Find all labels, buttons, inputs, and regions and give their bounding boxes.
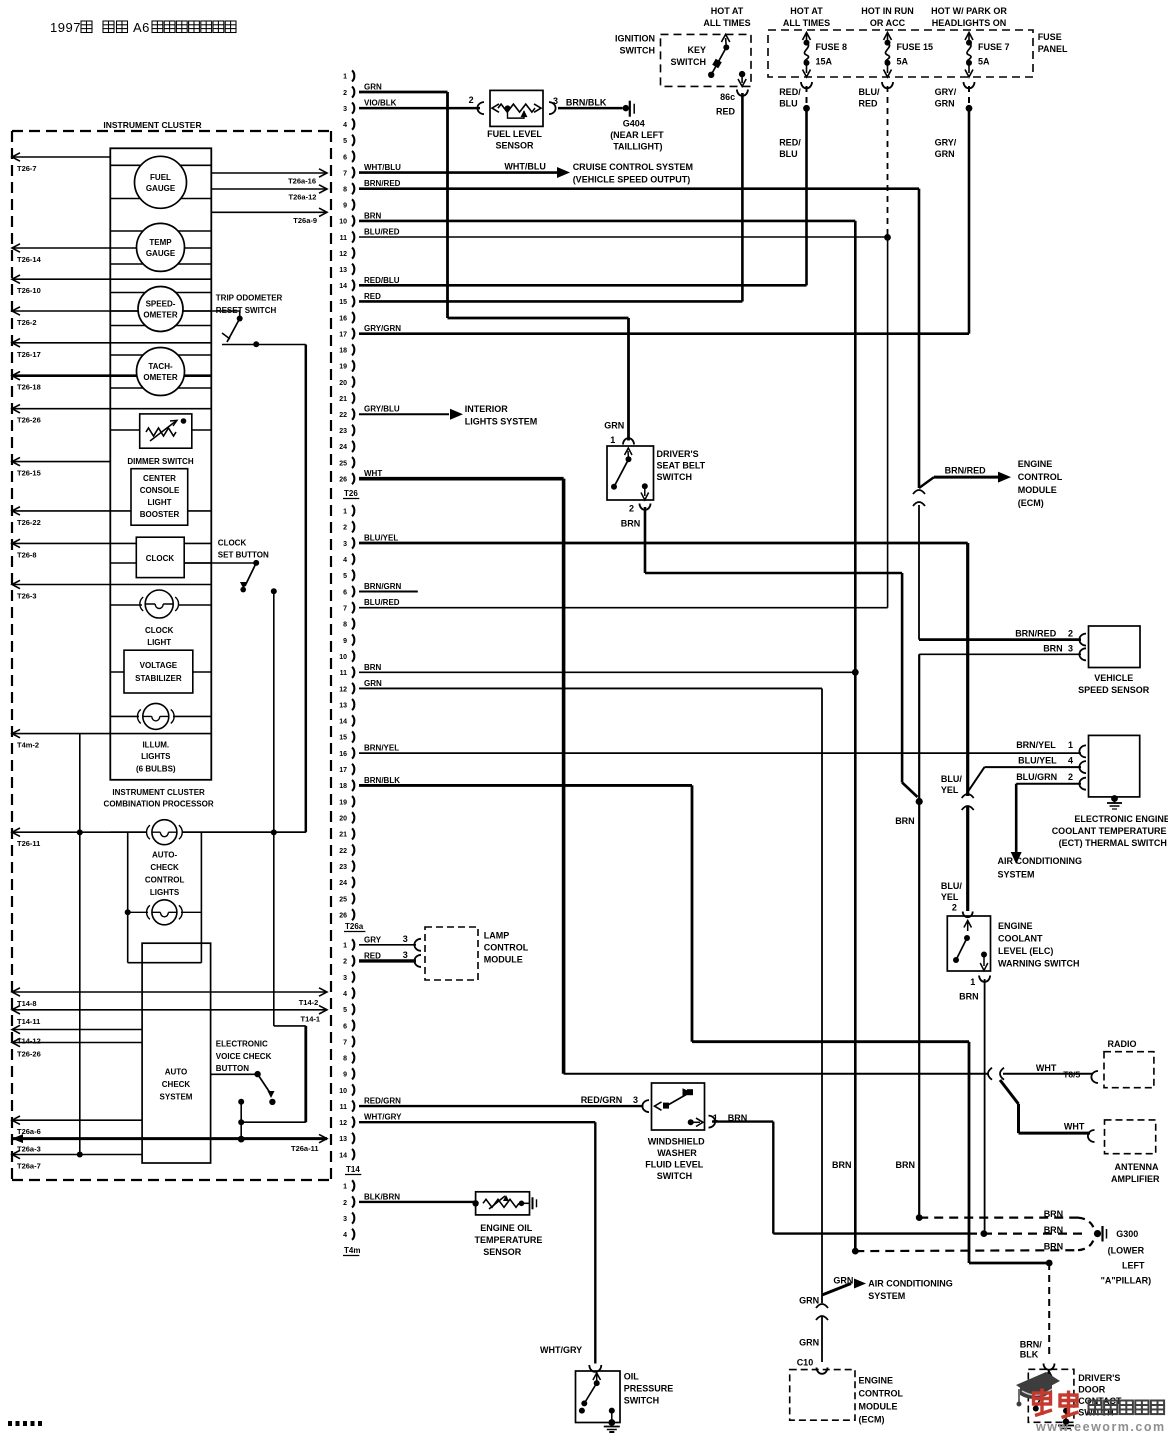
svg-text:8: 8 xyxy=(343,622,347,629)
svg-text:11: 11 xyxy=(340,1104,348,1111)
svg-text:CONTROL: CONTROL xyxy=(145,876,185,885)
svg-text:GRN: GRN xyxy=(935,99,955,109)
svg-text:3: 3 xyxy=(343,975,347,982)
svg-text:VIO/BLK: VIO/BLK xyxy=(364,99,397,108)
svg-text:4: 4 xyxy=(343,557,347,564)
svg-text:8: 8 xyxy=(343,1056,347,1063)
svg-text:PANEL: PANEL xyxy=(1038,44,1068,54)
svg-text:MODULE: MODULE xyxy=(859,1402,898,1412)
svg-text:ENGINE: ENGINE xyxy=(1018,459,1053,469)
svg-text:T26-17: T26-17 xyxy=(17,350,41,359)
svg-text:14: 14 xyxy=(339,283,347,290)
svg-text:ALL TIMES: ALL TIMES xyxy=(783,18,830,28)
svg-text:COMBINATION PROCESSOR: COMBINATION PROCESSOR xyxy=(104,800,214,809)
svg-text:GRN: GRN xyxy=(364,83,382,92)
svg-text:10: 10 xyxy=(339,654,347,661)
svg-text:3: 3 xyxy=(1068,644,1073,654)
svg-text:9: 9 xyxy=(343,1072,347,1079)
svg-text:HOT IN RUN: HOT IN RUN xyxy=(861,6,914,16)
svg-text:VOICE CHECK: VOICE CHECK xyxy=(216,1052,272,1061)
svg-text:INSTRUMENT CLUSTER: INSTRUMENT CLUSTER xyxy=(112,788,205,797)
svg-text:GRY/: GRY/ xyxy=(935,87,957,97)
svg-text:9: 9 xyxy=(343,638,347,645)
svg-text:(LOWER: (LOWER xyxy=(1108,1246,1145,1256)
svg-text:FUSE: FUSE xyxy=(1038,32,1062,42)
svg-text:T14: T14 xyxy=(346,1165,360,1174)
svg-text:WHT: WHT xyxy=(1064,1122,1085,1132)
svg-text:RED: RED xyxy=(364,292,381,301)
svg-text:RESET SWITCH: RESET SWITCH xyxy=(216,306,277,315)
svg-text:BRN: BRN xyxy=(1044,1209,1064,1219)
svg-text:BRN/BLK: BRN/BLK xyxy=(566,97,607,107)
svg-text:SWITCH: SWITCH xyxy=(657,472,693,482)
svg-text:RADIO: RADIO xyxy=(1108,1039,1137,1049)
svg-text:24: 24 xyxy=(339,880,347,887)
svg-text:ILLUM.: ILLUM. xyxy=(142,741,169,750)
svg-text:HEADLIGHTS ON: HEADLIGHTS ON xyxy=(932,18,1007,28)
svg-text:10: 10 xyxy=(339,1088,347,1095)
svg-text:(ECM): (ECM) xyxy=(859,1415,885,1425)
svg-text:SWITCH: SWITCH xyxy=(624,1396,660,1406)
svg-text:VEHICLE: VEHICLE xyxy=(1094,673,1133,683)
svg-text:86c: 86c xyxy=(720,92,735,102)
svg-text:GRN: GRN xyxy=(604,421,624,431)
svg-text:25: 25 xyxy=(339,896,347,903)
svg-text:STABILIZER: STABILIZER xyxy=(135,674,182,683)
svg-text:IGNITION: IGNITION xyxy=(615,34,655,44)
svg-text:4: 4 xyxy=(1068,756,1073,766)
svg-text:T26a-7: T26a-7 xyxy=(17,1162,41,1171)
svg-text:HOT AT: HOT AT xyxy=(790,6,823,16)
svg-text:BRN/BLK: BRN/BLK xyxy=(364,776,400,785)
svg-text:12: 12 xyxy=(339,1120,347,1127)
svg-text:T26-11: T26-11 xyxy=(17,839,40,848)
svg-text:PRESSURE: PRESSURE xyxy=(624,1384,674,1394)
svg-text:LIGHT: LIGHT xyxy=(147,638,171,647)
svg-text:25: 25 xyxy=(339,460,347,467)
svg-text:WASHER: WASHER xyxy=(657,1148,697,1158)
svg-text:SENSOR: SENSOR xyxy=(483,1247,522,1257)
svg-text:LIGHTS SYSTEM: LIGHTS SYSTEM xyxy=(465,417,538,427)
svg-text:SYSTEM: SYSTEM xyxy=(998,870,1035,880)
svg-text:2: 2 xyxy=(952,903,957,913)
svg-text:23: 23 xyxy=(339,428,347,435)
svg-text:GRY/: GRY/ xyxy=(935,138,957,148)
svg-text:DOOR: DOOR xyxy=(1078,1385,1106,1395)
svg-text:A6: A6 xyxy=(133,20,150,35)
svg-text:WHT/GRY: WHT/GRY xyxy=(540,1345,582,1355)
svg-text:RED/GRN: RED/GRN xyxy=(364,1097,401,1106)
svg-text:VOLTAGE: VOLTAGE xyxy=(140,661,178,670)
svg-text:SWITCH: SWITCH xyxy=(671,57,707,67)
svg-text:T26-2: T26-2 xyxy=(17,318,37,327)
svg-text:BRN: BRN xyxy=(1043,644,1063,654)
svg-text:BRN: BRN xyxy=(364,211,382,220)
svg-text:ENGINE OIL: ENGINE OIL xyxy=(480,1223,533,1233)
svg-text:BRN/YEL: BRN/YEL xyxy=(364,744,399,753)
svg-text:RED/: RED/ xyxy=(779,87,801,97)
svg-text:T26: T26 xyxy=(344,489,358,498)
svg-text:6: 6 xyxy=(343,1023,347,1030)
svg-text:RED/: RED/ xyxy=(779,138,801,148)
svg-text:TEMP: TEMP xyxy=(149,238,172,247)
svg-text:2: 2 xyxy=(343,1200,347,1207)
svg-text:SENSOR: SENSOR xyxy=(495,141,534,151)
svg-text:1: 1 xyxy=(1068,740,1073,750)
svg-text:G404: G404 xyxy=(623,118,645,128)
svg-text:COOLANT: COOLANT xyxy=(998,934,1043,944)
svg-text:AMPLIFIER: AMPLIFIER xyxy=(1111,1174,1160,1184)
svg-text:3: 3 xyxy=(343,1216,347,1223)
svg-text:1: 1 xyxy=(343,509,347,516)
svg-text:12: 12 xyxy=(339,251,347,258)
svg-text:SWITCH: SWITCH xyxy=(620,46,656,56)
svg-text:11: 11 xyxy=(340,670,348,677)
svg-text:GAUGE: GAUGE xyxy=(146,249,176,258)
svg-text:DIMMER SWITCH: DIMMER SWITCH xyxy=(127,457,193,466)
svg-text:WARNING SWITCH: WARNING SWITCH xyxy=(998,959,1080,969)
svg-text:T26a-6: T26a-6 xyxy=(17,1127,41,1136)
svg-text:OMETER: OMETER xyxy=(143,373,177,382)
svg-text:20: 20 xyxy=(339,816,347,823)
svg-text:OR ACC: OR ACC xyxy=(870,18,906,28)
svg-text:T14-12: T14-12 xyxy=(17,1037,41,1046)
svg-text:15: 15 xyxy=(339,299,347,306)
svg-text:AUTO: AUTO xyxy=(165,1068,188,1077)
svg-text:5A: 5A xyxy=(897,57,909,67)
svg-text:7: 7 xyxy=(343,605,347,612)
svg-text:14: 14 xyxy=(339,719,347,726)
svg-text:BRN/RED: BRN/RED xyxy=(1015,629,1057,639)
svg-text:CHECK: CHECK xyxy=(150,863,179,872)
svg-text:22: 22 xyxy=(339,412,347,419)
svg-text:WHT: WHT xyxy=(364,469,382,478)
svg-text:14: 14 xyxy=(339,1152,347,1159)
svg-text:6: 6 xyxy=(343,154,347,161)
svg-text:WHT/BLU: WHT/BLU xyxy=(504,162,546,172)
svg-text:DRIVER'S: DRIVER'S xyxy=(657,449,699,459)
svg-text:T26a-12: T26a-12 xyxy=(289,193,317,202)
svg-text:KEY: KEY xyxy=(687,45,706,55)
svg-text:4: 4 xyxy=(343,1232,347,1239)
svg-text:TEMPERATURE: TEMPERATURE xyxy=(475,1235,543,1245)
svg-text:WINDSHIELD: WINDSHIELD xyxy=(648,1137,705,1147)
svg-text:ELECTRONIC: ELECTRONIC xyxy=(216,1040,268,1049)
svg-text:19: 19 xyxy=(339,799,347,806)
svg-text:GRN: GRN xyxy=(935,149,955,159)
svg-text:FUSE 15: FUSE 15 xyxy=(897,42,934,52)
svg-text:18: 18 xyxy=(339,348,347,355)
svg-text:1: 1 xyxy=(343,1184,347,1191)
svg-text:2: 2 xyxy=(343,525,347,532)
svg-text:MODULE: MODULE xyxy=(1018,485,1057,495)
svg-text:(ECM): (ECM) xyxy=(1018,498,1044,508)
svg-text:17: 17 xyxy=(339,767,347,774)
svg-text:TACH-: TACH- xyxy=(148,362,173,371)
svg-text:BLU/: BLU/ xyxy=(941,774,962,784)
svg-text:2: 2 xyxy=(343,90,347,97)
svg-text:T26a-3: T26a-3 xyxy=(17,1145,41,1154)
svg-text:BLU/GRN: BLU/GRN xyxy=(1016,772,1057,782)
svg-text:5: 5 xyxy=(343,573,347,580)
svg-text:BRN/: BRN/ xyxy=(1020,1340,1042,1350)
svg-text:T26-7: T26-7 xyxy=(17,164,37,173)
svg-text:WHT/GRY: WHT/GRY xyxy=(364,1113,402,1122)
svg-text:RED: RED xyxy=(859,99,879,109)
svg-text:CENTER: CENTER xyxy=(143,474,176,483)
svg-text:3: 3 xyxy=(553,96,558,106)
svg-text:3: 3 xyxy=(633,1095,638,1105)
svg-text:BRN: BRN xyxy=(364,663,382,672)
svg-text:BLU/: BLU/ xyxy=(859,87,880,97)
svg-text:23: 23 xyxy=(339,864,347,871)
svg-text:HOT W/ PARK OR: HOT W/ PARK OR xyxy=(931,6,1007,16)
svg-text:5: 5 xyxy=(343,1007,347,1014)
svg-text:T14-2: T14-2 xyxy=(299,998,319,1007)
svg-text:ALL TIMES: ALL TIMES xyxy=(703,18,750,28)
svg-text:SYSTEM: SYSTEM xyxy=(868,1291,905,1301)
svg-text:13: 13 xyxy=(339,267,347,274)
svg-text:T26-26: T26-26 xyxy=(17,416,41,425)
svg-text:BRN: BRN xyxy=(1044,1225,1064,1235)
svg-text:CONTROL: CONTROL xyxy=(1018,472,1063,482)
svg-text:BRN: BRN xyxy=(959,992,979,1002)
svg-text:11: 11 xyxy=(340,235,348,242)
svg-text:2: 2 xyxy=(1068,772,1073,782)
svg-text:BRN/RED: BRN/RED xyxy=(945,466,987,476)
svg-text:LIGHTS: LIGHTS xyxy=(150,888,180,897)
svg-text:WHT: WHT xyxy=(1036,1063,1057,1073)
svg-text:T8/5: T8/5 xyxy=(1063,1070,1080,1080)
svg-text:24: 24 xyxy=(339,444,347,451)
svg-text:CRUISE CONTROL SYSTEM: CRUISE CONTROL SYSTEM xyxy=(573,162,693,172)
svg-text:8: 8 xyxy=(343,186,347,193)
svg-text:22: 22 xyxy=(339,848,347,855)
svg-text:T26a-11: T26a-11 xyxy=(291,1144,319,1153)
svg-text:FUEL: FUEL xyxy=(150,173,171,182)
svg-text:7: 7 xyxy=(343,170,347,177)
svg-text:COOLANT TEMPERATURE: COOLANT TEMPERATURE xyxy=(1052,826,1167,836)
svg-text:ENGINE: ENGINE xyxy=(998,921,1033,931)
svg-text:2: 2 xyxy=(1068,629,1073,639)
svg-text:FUSE 8: FUSE 8 xyxy=(816,42,848,52)
svg-text:18: 18 xyxy=(339,783,347,790)
svg-text:FLUID LEVEL: FLUID LEVEL xyxy=(645,1160,704,1170)
svg-text:YEL: YEL xyxy=(941,785,959,795)
svg-text:"A"PILLAR): "A"PILLAR) xyxy=(1101,1276,1152,1286)
svg-text:BLU/YEL: BLU/YEL xyxy=(1018,756,1057,766)
svg-text:CONSOLE: CONSOLE xyxy=(140,486,180,495)
svg-text:T14-1: T14-1 xyxy=(301,1015,321,1024)
svg-text:16: 16 xyxy=(339,751,347,758)
svg-text:CLOCK: CLOCK xyxy=(218,539,247,548)
svg-text:T26-10: T26-10 xyxy=(17,286,41,295)
svg-text:ENGINE: ENGINE xyxy=(859,1376,894,1386)
svg-text:SET BUTTON: SET BUTTON xyxy=(218,551,269,560)
svg-text:13: 13 xyxy=(339,1136,347,1143)
svg-text:OIL: OIL xyxy=(624,1372,640,1382)
svg-text:T26a: T26a xyxy=(345,922,364,931)
svg-text:5: 5 xyxy=(343,138,347,145)
svg-text:BRN: BRN xyxy=(621,519,641,529)
svg-text:BLK: BLK xyxy=(1020,1350,1039,1360)
svg-text:SEAT BELT: SEAT BELT xyxy=(657,461,706,471)
svg-text:SPEED-: SPEED- xyxy=(146,300,176,309)
svg-text:1: 1 xyxy=(343,74,347,81)
svg-text:MODULE: MODULE xyxy=(484,955,523,965)
svg-text:BRN: BRN xyxy=(895,816,915,826)
svg-text:RED: RED xyxy=(364,951,381,960)
svg-text:5A: 5A xyxy=(978,57,990,67)
svg-text:CONTROL: CONTROL xyxy=(484,943,529,953)
svg-text:T26-3: T26-3 xyxy=(17,592,37,601)
svg-text:10: 10 xyxy=(339,219,347,226)
svg-text:SYSTEM: SYSTEM xyxy=(160,1093,193,1102)
svg-text:15A: 15A xyxy=(816,57,833,67)
svg-text:AIR CONDITIONING: AIR CONDITIONING xyxy=(868,1279,953,1289)
svg-text:T4m-2: T4m-2 xyxy=(17,741,39,750)
svg-text:RED: RED xyxy=(716,107,736,117)
svg-text:FUEL LEVEL: FUEL LEVEL xyxy=(487,129,542,139)
svg-text:T26-26: T26-26 xyxy=(17,1050,41,1059)
svg-text:GAUGE: GAUGE xyxy=(146,184,176,193)
svg-text:LAMP: LAMP xyxy=(484,931,510,941)
svg-text:4: 4 xyxy=(343,122,347,129)
svg-text:3: 3 xyxy=(403,934,408,944)
svg-text:4: 4 xyxy=(343,991,347,998)
svg-text:TAILLIGHT): TAILLIGHT) xyxy=(613,142,662,152)
svg-text:BUTTON: BUTTON xyxy=(216,1064,249,1073)
svg-text:1: 1 xyxy=(343,943,347,950)
svg-text:BLU: BLU xyxy=(779,149,798,159)
svg-text:BRN: BRN xyxy=(896,1160,916,1170)
svg-text:(NEAR LEFT: (NEAR LEFT xyxy=(610,130,664,140)
svg-text:T26-8: T26-8 xyxy=(17,550,37,559)
svg-text:T26-18: T26-18 xyxy=(17,383,41,392)
svg-text:AUTO-: AUTO- xyxy=(152,851,178,860)
svg-text:T26-22: T26-22 xyxy=(17,518,41,527)
svg-text:T26a-16: T26a-16 xyxy=(288,177,316,186)
svg-text:17: 17 xyxy=(339,331,347,338)
svg-text:LEVEL (ELC): LEVEL (ELC) xyxy=(998,946,1053,956)
svg-text:BLU/: BLU/ xyxy=(941,881,962,891)
svg-text:YEL: YEL xyxy=(941,892,959,902)
svg-text:INTERIOR: INTERIOR xyxy=(465,404,509,414)
svg-text:12: 12 xyxy=(339,686,347,693)
svg-text:BLU/RED: BLU/RED xyxy=(364,598,400,607)
svg-text:GRY/BLU: GRY/BLU xyxy=(364,405,400,414)
svg-text:2: 2 xyxy=(629,504,634,514)
svg-text:(ECT) THERMAL SWITCH: (ECT) THERMAL SWITCH xyxy=(1059,838,1167,848)
svg-text:ELECTRONIC ENGINE: ELECTRONIC ENGINE xyxy=(1074,814,1168,824)
svg-text:CONTROL: CONTROL xyxy=(859,1389,904,1399)
svg-text:1: 1 xyxy=(970,977,975,987)
svg-text:1: 1 xyxy=(610,435,615,445)
svg-text:BLU/YEL: BLU/YEL xyxy=(364,534,398,543)
svg-text:BOOSTER: BOOSTER xyxy=(140,510,180,519)
svg-text:RED/BLU: RED/BLU xyxy=(364,276,400,285)
svg-text:SPEED SENSOR: SPEED SENSOR xyxy=(1078,685,1150,695)
svg-text:16: 16 xyxy=(339,315,347,322)
svg-text:BRN/GRN: BRN/GRN xyxy=(364,582,402,591)
svg-text:15: 15 xyxy=(339,735,347,742)
svg-text:BLU/RED: BLU/RED xyxy=(364,228,400,237)
svg-text:AIR CONDITIONING: AIR CONDITIONING xyxy=(998,856,1083,866)
svg-text:2: 2 xyxy=(343,959,347,966)
svg-text:BLU: BLU xyxy=(779,99,798,109)
svg-text:CHECK: CHECK xyxy=(162,1080,191,1089)
svg-text:CLOCK: CLOCK xyxy=(145,626,174,635)
svg-text:7: 7 xyxy=(343,1039,347,1046)
svg-text:13: 13 xyxy=(339,702,347,709)
svg-text:(6 BULBS): (6 BULBS) xyxy=(136,765,176,774)
svg-text:LIGHTS: LIGHTS xyxy=(141,752,171,761)
svg-text:2: 2 xyxy=(469,95,474,105)
svg-text:21: 21 xyxy=(339,832,347,839)
svg-text:WHT/BLU: WHT/BLU xyxy=(364,163,401,172)
svg-text:GRN: GRN xyxy=(799,1338,819,1348)
svg-text:T26a-9: T26a-9 xyxy=(293,216,317,225)
svg-text:BRN: BRN xyxy=(832,1160,852,1170)
svg-text:BRN/RED: BRN/RED xyxy=(364,179,401,188)
svg-text:BLK/BRN: BLK/BRN xyxy=(364,1192,400,1201)
svg-text:21: 21 xyxy=(339,396,347,403)
svg-text:GRY/GRN: GRY/GRN xyxy=(364,324,401,333)
svg-text:T26-15: T26-15 xyxy=(17,469,41,478)
svg-text:INSTRUMENT CLUSTER: INSTRUMENT CLUSTER xyxy=(103,120,201,130)
svg-text:T14-8: T14-8 xyxy=(17,999,37,1008)
svg-text:LIGHT: LIGHT xyxy=(148,498,172,507)
svg-text:BRN: BRN xyxy=(1044,1242,1064,1252)
svg-text:ANTENNA: ANTENNA xyxy=(1115,1162,1159,1172)
svg-text:T4m: T4m xyxy=(344,1246,360,1255)
svg-text:3: 3 xyxy=(343,106,347,113)
svg-text:C10: C10 xyxy=(797,1358,814,1368)
svg-text:20: 20 xyxy=(339,380,347,387)
svg-text:9: 9 xyxy=(343,203,347,210)
svg-text:GRN: GRN xyxy=(799,1296,819,1306)
svg-text:T14-11: T14-11 xyxy=(17,1017,40,1026)
svg-text:DRIVER'S: DRIVER'S xyxy=(1078,1373,1120,1383)
svg-text:6: 6 xyxy=(343,589,347,596)
svg-text:RED/GRN: RED/GRN xyxy=(581,1095,623,1105)
svg-text:www.eeworm.com: www.eeworm.com xyxy=(1035,1420,1166,1433)
svg-text:GRY: GRY xyxy=(364,935,382,944)
svg-text:3: 3 xyxy=(343,541,347,548)
svg-text:1997: 1997 xyxy=(50,20,81,35)
svg-text:OMETER: OMETER xyxy=(143,311,177,320)
svg-text:26: 26 xyxy=(339,913,347,920)
svg-text:HOT AT: HOT AT xyxy=(711,6,744,16)
svg-text:FUSE 7: FUSE 7 xyxy=(978,42,1010,52)
svg-text:T26-14: T26-14 xyxy=(17,255,42,264)
svg-text:GRN: GRN xyxy=(364,679,382,688)
svg-text:LEFT: LEFT xyxy=(1122,1261,1145,1271)
svg-text:G300: G300 xyxy=(1116,1229,1138,1239)
svg-text:3: 3 xyxy=(403,950,408,960)
svg-text:BRN/YEL: BRN/YEL xyxy=(1016,740,1056,750)
svg-text:TRIP ODOMETER: TRIP ODOMETER xyxy=(216,294,283,303)
svg-text:CLOCK: CLOCK xyxy=(146,554,175,563)
svg-text:19: 19 xyxy=(339,364,347,371)
svg-text:(VEHICLE SPEED OUTPUT): (VEHICLE SPEED OUTPUT) xyxy=(573,175,691,185)
svg-text:SWITCH: SWITCH xyxy=(657,1171,693,1181)
svg-text:26: 26 xyxy=(339,476,347,483)
